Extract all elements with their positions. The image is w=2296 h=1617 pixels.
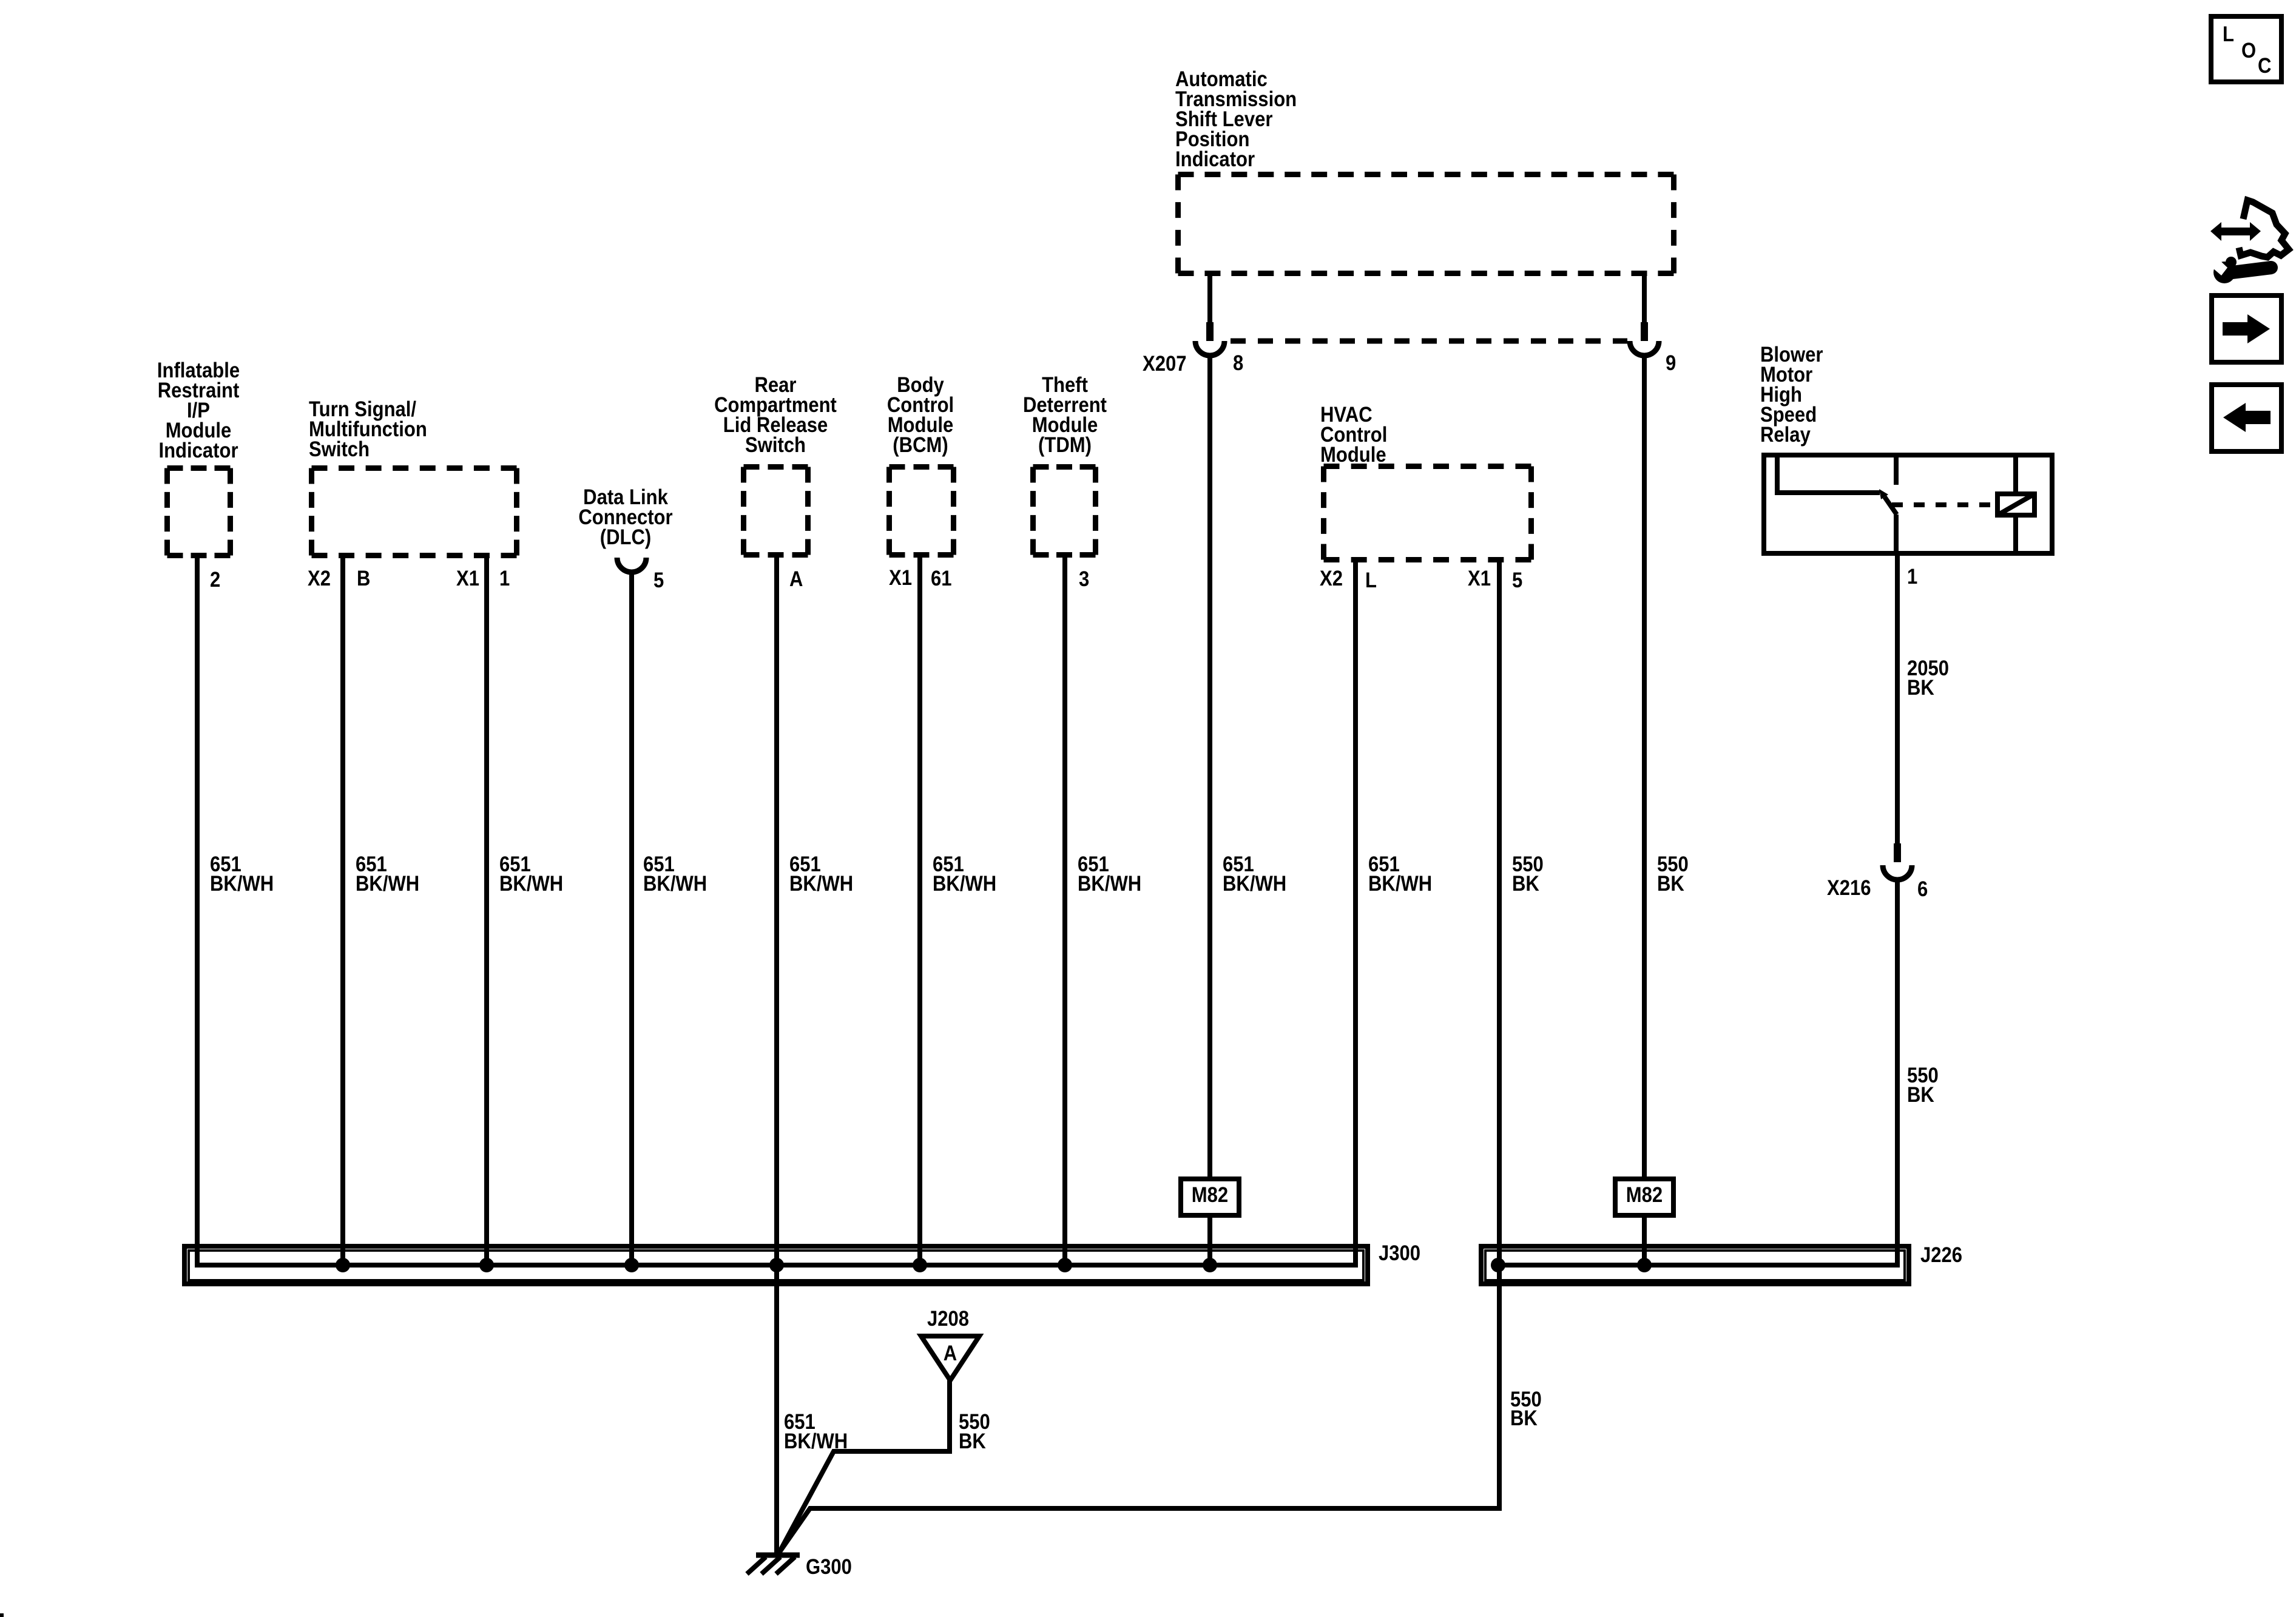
svg-text:BK/WH: BK/WH <box>210 872 274 896</box>
svg-text:X1: X1 <box>889 566 912 590</box>
svg-text:BK/WH: BK/WH <box>1223 872 1286 896</box>
svg-text:C: C <box>2258 54 2271 78</box>
svg-text:BK/WH: BK/WH <box>1368 872 1432 896</box>
svg-text:Indicator: Indicator <box>1175 147 1255 171</box>
svg-text:BK/WH: BK/WH <box>356 872 419 896</box>
svg-text:61: 61 <box>931 567 952 590</box>
svg-text:Switch: Switch <box>745 433 806 457</box>
svg-text:BK/WH: BK/WH <box>789 872 853 896</box>
svg-text:9: 9 <box>1666 351 1676 375</box>
svg-text:BK/WH: BK/WH <box>933 872 996 896</box>
svg-text:M82: M82 <box>1626 1183 1663 1207</box>
svg-text:J300: J300 <box>1379 1241 1420 1265</box>
svg-text:X216: X216 <box>1827 876 1871 900</box>
svg-text:G300: G300 <box>806 1555 852 1579</box>
svg-text:M82: M82 <box>1192 1183 1228 1207</box>
svg-text:J208: J208 <box>927 1307 969 1331</box>
svg-text:BK: BK <box>1907 676 1934 700</box>
svg-text:O: O <box>2241 39 2256 62</box>
svg-text:BK/WH: BK/WH <box>1078 872 1141 896</box>
svg-text:8: 8 <box>1233 351 1243 375</box>
svg-text:A: A <box>944 1342 957 1365</box>
svg-text:BK: BK <box>1512 872 1539 896</box>
svg-text:2: 2 <box>210 568 220 592</box>
svg-text:B: B <box>357 567 370 590</box>
svg-text:5: 5 <box>653 569 664 592</box>
svg-text:Indicator: Indicator <box>158 439 238 462</box>
svg-text:3: 3 <box>1079 567 1089 591</box>
svg-text:X2: X2 <box>1320 567 1343 590</box>
svg-text:BK/WH: BK/WH <box>499 872 563 896</box>
svg-text:(BCM): (BCM) <box>893 433 948 457</box>
svg-text:BK: BK <box>1657 872 1684 896</box>
svg-text:Module: Module <box>1320 443 1386 467</box>
svg-text:Relay: Relay <box>1760 423 1811 447</box>
svg-text:J226: J226 <box>1920 1243 1962 1267</box>
svg-text:A: A <box>789 567 803 591</box>
svg-text:BK: BK <box>1907 1083 1934 1107</box>
svg-text:6: 6 <box>1917 877 1928 901</box>
svg-text:Switch: Switch <box>309 437 370 461</box>
svg-text:X1: X1 <box>456 567 479 590</box>
svg-text:L: L <box>2223 22 2234 46</box>
svg-text:X2: X2 <box>308 567 331 590</box>
svg-text:BK: BK <box>959 1430 986 1453</box>
svg-text:(DLC): (DLC) <box>600 525 651 549</box>
svg-text:5: 5 <box>1512 569 1522 592</box>
svg-text:X1: X1 <box>1468 567 1491 590</box>
svg-text:L: L <box>1365 569 1377 592</box>
svg-text:1: 1 <box>1907 565 1917 589</box>
svg-text:BK/WH: BK/WH <box>643 872 707 896</box>
svg-text:X207: X207 <box>1143 352 1187 376</box>
svg-text:(TDM): (TDM) <box>1038 433 1092 457</box>
svg-text:BK: BK <box>1510 1406 1538 1430</box>
svg-text:1: 1 <box>499 567 510 590</box>
